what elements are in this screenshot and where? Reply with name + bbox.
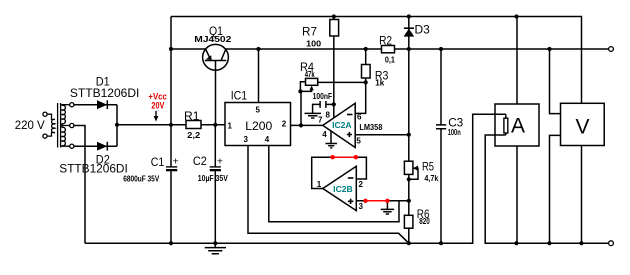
svg-text:IC2A: IC2A bbox=[332, 121, 352, 130]
junction R4 wiper node bbox=[298, 89, 302, 93]
svg-text:8: 8 bbox=[326, 111, 331, 120]
ground IC2A pin4 bbox=[326, 144, 338, 148]
wire D1 anode bbox=[74, 104, 117, 106]
wire R4 right lead bbox=[318, 81, 366, 83]
svg-text:2: 2 bbox=[359, 180, 364, 189]
svg-text:STTB1206DI: STTB1206DI bbox=[59, 162, 128, 176]
wire main dc line y124.8 bbox=[117, 124, 225, 126]
junction R5 top node bbox=[407, 133, 411, 137]
svg-text:20V: 20V bbox=[151, 101, 164, 111]
transformer core bbox=[58, 103, 61, 148]
svg-text:R5: R5 bbox=[422, 160, 434, 174]
diode D1 bbox=[97, 100, 107, 109]
terminal secondary center tap bbox=[70, 123, 74, 127]
resistor R7 bbox=[330, 20, 339, 37]
transistor Q1 bbox=[203, 44, 229, 70]
svg-text:6: 6 bbox=[357, 113, 362, 122]
wire R4 left lead and wiper bbox=[300, 82, 311, 92]
svg-text:7: 7 bbox=[318, 116, 323, 125]
wire R7 column bbox=[333, 17, 335, 105]
wire D2 anode bbox=[74, 145, 117, 147]
junction D3 anode rail bbox=[407, 47, 411, 51]
junction R3 top rail bbox=[364, 47, 368, 51]
diode D3 bbox=[404, 28, 415, 36]
junction C1 node bbox=[169, 123, 173, 127]
svg-text:3: 3 bbox=[359, 202, 364, 211]
wire IC2A pin5 line bbox=[355, 134, 409, 136]
wire L200 pin3 to ground rail bbox=[248, 146, 409, 244]
wire 100nF left lead to ground bbox=[313, 104, 321, 113]
transformer primary winding bbox=[47, 114, 55, 136]
op-amp U2B triangle bbox=[323, 166, 357, 210]
red junction IC2B feedback left bbox=[330, 155, 334, 159]
svg-text:1: 1 bbox=[228, 121, 233, 130]
+Vcc arrow bbox=[154, 111, 159, 122]
wire L200 pin4 sense bbox=[269, 146, 399, 222]
svg-text:2,2: 2,2 bbox=[187, 131, 201, 140]
wire voltmeter upper stub bbox=[550, 49, 561, 114]
capacitor 100nF bbox=[320, 101, 326, 108]
wire 100nF right lead bbox=[326, 103, 334, 105]
terminal secondary top bbox=[70, 103, 74, 107]
potentiometer R5 bbox=[404, 161, 418, 174]
regulator IC1 L200 box bbox=[225, 103, 291, 146]
terminal primary bottom bbox=[43, 134, 47, 138]
wire right main column D3 R5 R6 bbox=[408, 17, 410, 244]
junction voltmeter stub ground rail bbox=[547, 241, 551, 245]
junction R5 wiper node bbox=[407, 177, 411, 181]
wire emitter rail right to output bbox=[225, 48, 609, 50]
svg-text:R1: R1 bbox=[184, 109, 200, 123]
wire voltmeter bottom pin bbox=[581, 146, 583, 244]
svg-text:R7: R7 bbox=[302, 25, 317, 39]
red junction IC2B pin3 left bbox=[363, 199, 367, 203]
svg-text:100: 100 bbox=[306, 40, 322, 49]
terminal secondary bottom bbox=[70, 144, 74, 148]
svg-text:5: 5 bbox=[356, 137, 361, 146]
wire red IC2B pin3 segment bbox=[366, 200, 388, 202]
junction Q1 base C2 node bbox=[213, 123, 217, 127]
ground IC2B pin3 bbox=[381, 209, 394, 214]
svg-text:4: 4 bbox=[265, 135, 270, 144]
wire emitter rail left bbox=[171, 48, 206, 50]
svg-text:4,7k: 4,7k bbox=[424, 174, 438, 183]
diode D2 bbox=[97, 142, 107, 151]
wire R4 junction vertical bbox=[300, 91, 302, 125]
op-amp U2A triangle bbox=[323, 103, 355, 147]
terminal primary top bbox=[43, 112, 47, 116]
junction C1 ground rail bbox=[169, 241, 173, 245]
wire R5 wiper bbox=[409, 168, 418, 179]
resistor R6 bbox=[404, 215, 413, 228]
wire Q1 base down bbox=[215, 61, 217, 125]
IC2A plus bbox=[347, 132, 352, 137]
svg-text:+: + bbox=[173, 155, 179, 167]
wire R3 column and pin6 bbox=[355, 49, 366, 113]
junction Q1 emitter rail bbox=[169, 47, 173, 51]
ammeter box bbox=[495, 104, 539, 146]
wire rectifier output vertical bbox=[116, 105, 118, 147]
junction L200 pin5 rail bbox=[256, 47, 260, 51]
junction R7 top rail bbox=[332, 14, 336, 18]
junction ammeter top rail bbox=[514, 14, 518, 18]
wire left column x171 bbox=[170, 17, 172, 244]
wire IC2B pin3 ground stub bbox=[386, 201, 388, 210]
wire ammeter shunt stubs bbox=[505, 114, 507, 135]
svg-text:10µF 35V: 10µF 35V bbox=[198, 174, 229, 183]
svg-text:IC2B: IC2B bbox=[333, 185, 353, 194]
transformer secondary windings bbox=[62, 105, 70, 147]
svg-text:820: 820 bbox=[419, 217, 430, 226]
output terminal plus bbox=[609, 47, 614, 52]
junction R6 top node bbox=[407, 199, 411, 203]
output terminal minus bbox=[609, 241, 614, 246]
capacitor C1 bbox=[166, 167, 177, 171]
capacitor C3 bbox=[436, 125, 446, 129]
wire IC2A pin8 bbox=[333, 104, 335, 118]
wire L200 pin5 bbox=[258, 49, 260, 103]
wire C3 column bbox=[440, 49, 442, 243]
svg-text:STTB1206DI: STTB1206DI bbox=[70, 86, 139, 100]
svg-text:4: 4 bbox=[322, 130, 327, 139]
wire L200 pin2 to IC2A output bbox=[291, 124, 323, 126]
ground main bbox=[205, 243, 226, 254]
svg-text:2: 2 bbox=[282, 119, 287, 128]
potentiometer R4 bbox=[306, 78, 318, 90]
svg-text:0,1: 0,1 bbox=[385, 55, 395, 64]
junction C3 top rail bbox=[439, 47, 443, 51]
red junction IC2B pin3 right bbox=[385, 199, 389, 203]
junction R6 ground rail bbox=[407, 241, 411, 245]
svg-text:3: 3 bbox=[244, 135, 249, 144]
resistor R3 bbox=[362, 65, 371, 79]
svg-text:1: 1 bbox=[317, 180, 322, 189]
svg-text:220 V: 220 V bbox=[15, 118, 45, 132]
junction R3 R4 node bbox=[364, 80, 368, 84]
junction 100nF pin8 node bbox=[332, 102, 336, 106]
resistor R2 bbox=[382, 46, 395, 53]
junction C2 ground rail bbox=[213, 241, 217, 245]
red junction IC2B feedback right bbox=[354, 155, 358, 159]
svg-text:R2: R2 bbox=[379, 34, 392, 48]
svg-text:+: + bbox=[217, 155, 223, 167]
IC2A minus bbox=[347, 114, 353, 116]
junction C3 ground rail bbox=[439, 241, 443, 245]
svg-text:D3: D3 bbox=[415, 23, 431, 37]
wire ammeter bottom pin bbox=[516, 146, 518, 243]
junction rectifier output bbox=[115, 123, 119, 127]
junction voltmeter rail bbox=[547, 47, 551, 51]
junction voltmeter ground rail bbox=[579, 241, 583, 245]
svg-text:IC1: IC1 bbox=[231, 89, 248, 103]
svg-text:1k: 1k bbox=[375, 78, 385, 87]
junction D3 top rail bbox=[407, 14, 411, 18]
svg-text:5: 5 bbox=[256, 106, 261, 115]
IC2B minus bbox=[348, 177, 354, 179]
wire red IC2B feedback segment bbox=[333, 156, 356, 158]
wire IC2B feedback loop black bbox=[312, 157, 367, 188]
junction ammeter ground rail bbox=[514, 241, 518, 245]
wire bottom rail left bbox=[85, 114, 506, 243]
svg-text:100nF: 100nF bbox=[313, 92, 333, 101]
svg-text:6800uF 35V: 6800uF 35V bbox=[123, 174, 160, 183]
svg-text:C2: C2 bbox=[193, 154, 207, 168]
wire top rail bbox=[171, 17, 582, 104]
svg-text:A: A bbox=[511, 114, 525, 137]
svg-text:LM358: LM358 bbox=[359, 123, 383, 132]
junction R4 feedback node bbox=[299, 123, 303, 127]
wire ammeter top pin bbox=[516, 17, 518, 105]
ground under 100nF bbox=[305, 113, 322, 118]
IC2B plus bbox=[348, 199, 353, 204]
wire C2 column bbox=[214, 125, 216, 243]
wire IC2A pin4 bbox=[330, 129, 332, 143]
svg-text:C1: C1 bbox=[151, 155, 165, 169]
svg-text:MJ4502: MJ4502 bbox=[194, 35, 232, 44]
wire IC2B pin3 black parts bbox=[356, 200, 409, 202]
svg-text:100n: 100n bbox=[448, 128, 461, 137]
wire center tap to ground rail bbox=[74, 126, 85, 244]
svg-text:L200: L200 bbox=[245, 119, 272, 133]
capacitor C2 bbox=[210, 167, 221, 171]
svg-text:47k: 47k bbox=[305, 70, 315, 79]
svg-text:V: V bbox=[575, 115, 589, 138]
wire voltmeter lower stub bbox=[550, 135, 561, 243]
wire bottom rail right bbox=[485, 135, 608, 243]
voltmeter box bbox=[561, 103, 605, 145]
resistor R1 bbox=[186, 121, 201, 129]
